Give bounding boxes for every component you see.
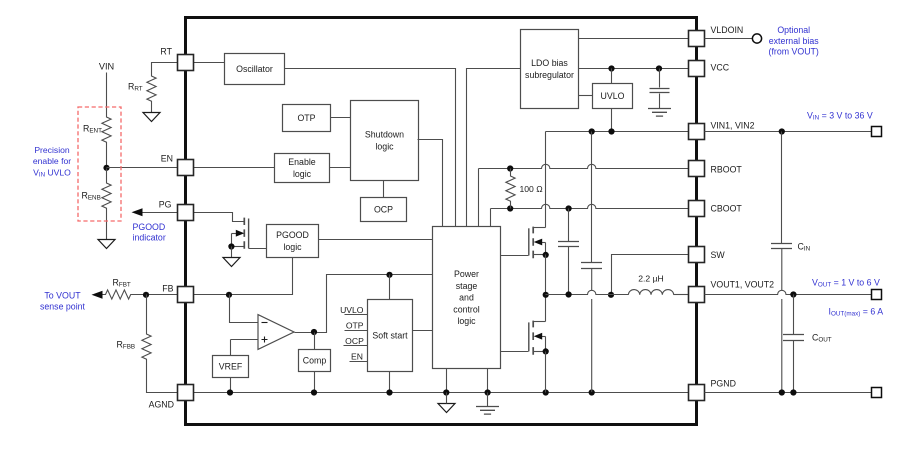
block Oscillator	[225, 54, 285, 85]
node PGOOD FET source junction	[228, 243, 234, 249]
wire RENB to ground	[106, 223, 108, 240]
wire FB to op-amp inverting input	[230, 295, 259, 323]
ground (EN divider)	[98, 240, 115, 249]
svg-text:EN: EN	[351, 351, 363, 361]
block OCP	[361, 198, 407, 222]
node op-amp output junction	[311, 329, 317, 335]
wire PG pin to PGOOD FET drain	[194, 213, 245, 222]
ground (RRT)	[143, 113, 160, 122]
IC boundary (main block outline)	[186, 18, 697, 425]
block Comp	[299, 350, 331, 372]
svg-text:Shutdown: Shutdown	[365, 129, 404, 139]
wire RFBB to AGND pin	[147, 363, 178, 393]
wire RBOOT riser from power stage	[478, 169, 480, 227]
wire power stage to ground (triangle)	[446, 369, 448, 393]
svg-text:AGND: AGND	[149, 400, 174, 410]
wire HS gate from power stage	[501, 255, 529, 257]
svg-text:SW: SW	[711, 250, 726, 260]
wire VLDOIN to external bias	[705, 38, 753, 40]
wire soft start output to power stage	[413, 330, 433, 332]
inductor 2.2 uH	[628, 290, 673, 295]
pin PGND	[689, 385, 705, 401]
block Enable logic	[275, 154, 330, 183]
svg-text:OCP: OCP	[374, 205, 393, 215]
svg-text:UVLO: UVLO	[340, 305, 364, 315]
svg-text:PGOOD: PGOOD	[276, 230, 309, 240]
wire PGOOD logic to power stage	[319, 239, 433, 241]
wire CBOOT cap top lead	[568, 209, 570, 242]
wire junction to soft start	[389, 275, 391, 300]
wire VIN bypass cap top lead	[591, 132, 593, 263]
pin EN	[178, 160, 194, 176]
ground (power, earth)	[487, 393, 489, 407]
svg-text:VCC: VCC	[711, 62, 730, 72]
capacitor VIN bypass	[581, 263, 602, 269]
svg-text:PGOOD: PGOOD	[133, 222, 166, 232]
wire SW pin line	[612, 255, 689, 295]
node optional external bias terminal	[752, 34, 761, 43]
wire shutdown logic to OCP	[383, 181, 385, 198]
wire CBOOT line	[491, 204, 689, 208]
transistor high-side FET	[532, 227, 534, 259]
svg-text:PGND: PGND	[711, 379, 736, 389]
svg-text:control: control	[453, 304, 479, 314]
svg-text:RT: RT	[160, 47, 172, 57]
transistor low-side FET	[532, 321, 534, 355]
capacitor COUT	[783, 335, 804, 341]
block OTP	[283, 105, 331, 132]
svg-text:Comp: Comp	[303, 356, 327, 366]
wire VIN1 VIN2 line	[546, 131, 689, 133]
capacitor VCC bypass	[650, 89, 670, 93]
svg-text:VOUT1, VOUT2: VOUT1, VOUT2	[711, 279, 775, 289]
pin VCC	[689, 61, 705, 77]
svg-text:sense point: sense point	[40, 301, 86, 311]
arrowhead to VOUT sense point	[92, 291, 103, 299]
wire VIN bypass cap to ground rail	[591, 268, 593, 392]
wire LDO to VLDOIN pin	[579, 38, 689, 40]
wire SW node to inductor	[546, 290, 629, 294]
wire oscillator output to power stage	[285, 69, 456, 227]
wire OTP input	[345, 330, 368, 332]
wire VIN down to HS FET drain	[545, 132, 547, 228]
pin FB	[178, 287, 194, 303]
annotation precision-enable box (red dashed)	[78, 107, 121, 221]
svg-text:Precision: Precision	[34, 145, 70, 155]
pin RT	[178, 55, 194, 71]
wire LDO to UVLO	[579, 95, 593, 97]
svg-text:(from VOUT): (from VOUT)	[769, 47, 819, 57]
wire VREF to ground rail	[230, 378, 232, 393]
pin AGND	[178, 385, 194, 401]
svg-text:logic: logic	[375, 142, 394, 152]
svg-text:Soft start: Soft start	[372, 331, 408, 341]
wire CBOOT cap to SW node	[568, 247, 570, 295]
wire VCC cap to ground	[659, 94, 661, 109]
wire EN input	[350, 361, 368, 363]
node EN divider junction	[103, 165, 109, 171]
wire op-amp output to power stage	[295, 275, 433, 333]
svg-text:logic: logic	[457, 316, 476, 326]
svg-text:stage: stage	[456, 281, 478, 291]
pin VOUT1, VOUT2	[689, 287, 705, 303]
wire UVLO bottom to VIN line	[611, 109, 613, 132]
svg-text:VIN1, VIN2: VIN1, VIN2	[711, 121, 755, 131]
svg-text:CBOOT: CBOOT	[711, 204, 743, 214]
wire FB junction down to RFBB	[146, 295, 148, 331]
wire LS drain to SW node	[545, 295, 547, 322]
wire ground rail AGND to PGND	[194, 392, 689, 394]
ground (PGOOD FET)	[223, 258, 240, 267]
node FB external junction	[143, 292, 149, 298]
resistor RFBT	[100, 290, 137, 299]
block UVLO	[593, 84, 633, 109]
wire OTP to shutdown logic	[331, 117, 351, 119]
pin VIN1, VIN2	[689, 124, 705, 140]
node LS FET source junction	[543, 348, 549, 354]
resistor RRT	[147, 74, 156, 104]
wire PG indicator arrow	[141, 212, 178, 214]
svg-text:VLDOIN: VLDOIN	[711, 25, 744, 35]
node SW drop junction	[608, 292, 614, 298]
svg-text:Oscillator: Oscillator	[236, 64, 273, 74]
svg-text:RBOOT: RBOOT	[711, 164, 743, 174]
svg-text:OCP: OCP	[345, 336, 364, 346]
wire PGND external line	[705, 392, 872, 394]
resistor 100 ohm	[506, 169, 515, 209]
wire LS gate from power stage	[501, 351, 529, 353]
block Power stage and control logic	[433, 227, 501, 369]
wire RBOOT line	[479, 164, 689, 168]
resistor RENT	[102, 113, 111, 147]
svg-text:EN: EN	[161, 153, 173, 163]
wire FB pin to RFBT	[137, 294, 178, 296]
svg-text:To VOUT: To VOUT	[44, 290, 81, 300]
block Shutdown logic	[351, 101, 419, 181]
resistor RENB	[102, 169, 111, 223]
wire EN pin to enable logic	[194, 167, 275, 169]
terminal VIN input	[872, 127, 882, 137]
svg-text:indicator: indicator	[133, 232, 166, 242]
wire enable logic to shutdown logic	[330, 167, 351, 169]
block VREF	[213, 356, 249, 378]
wire RT pin to RRT	[152, 63, 178, 74]
wire CIN top lead	[781, 132, 783, 244]
arrowhead PGOOD indicator	[132, 208, 143, 216]
svg-text:OTP: OTP	[346, 320, 364, 330]
svg-text:logic: logic	[293, 169, 312, 179]
terminal PGND	[872, 388, 882, 398]
svg-text:FB: FB	[162, 283, 173, 293]
capacitor CIN	[771, 244, 792, 249]
wire RENT to node EN-div	[106, 147, 108, 169]
wire VCC line to UVLO top	[611, 69, 613, 84]
op-amp error amplifier	[258, 315, 294, 350]
svg-text:Enable: Enable	[288, 157, 315, 167]
svg-text:Optional: Optional	[777, 25, 810, 35]
svg-text:LDO bias: LDO bias	[531, 58, 568, 68]
capacitor CBOOT	[558, 242, 579, 247]
wire RRT to ground	[151, 104, 153, 113]
block LDO bias subregulator	[521, 30, 579, 109]
wire HS source to SW node	[545, 255, 547, 295]
wire CBOOT riser from power stage	[490, 209, 492, 227]
wire VIN to RENT	[106, 73, 108, 113]
wire LS source to ground rail	[545, 352, 547, 393]
wire VIN external line	[705, 131, 872, 133]
wire COUT top lead	[793, 295, 795, 335]
svg-text:OTP: OTP	[297, 113, 315, 123]
wire PGOOD logic sense from FB	[194, 258, 293, 295]
pin RBOOT	[689, 161, 705, 177]
wire inductor to VOUT pin	[674, 294, 689, 296]
wire PGOOD FET source to ground	[231, 247, 233, 258]
wire OCP input	[344, 345, 368, 347]
wire COUT bottom lead	[793, 341, 795, 393]
node HS FET source junction	[543, 252, 549, 258]
wire VREF to op-amp non-inverting input	[231, 339, 259, 341]
wire soft start to ground rail	[389, 372, 391, 393]
svg-text:and: and	[459, 293, 474, 303]
wire UVLO input	[345, 314, 368, 316]
wire comp to op-amp output	[314, 333, 316, 350]
node SW node junction	[543, 292, 549, 298]
svg-text:100 Ω: 100 Ω	[520, 184, 544, 194]
wire VCC bypass cap lead	[659, 69, 661, 88]
svg-text:enable for: enable for	[33, 156, 71, 166]
transistor PGOOD FET Q1	[243, 218, 245, 249]
ground (analog, triangle)	[438, 404, 455, 413]
wire comp to ground rail	[314, 372, 316, 393]
svg-text:VREF: VREF	[219, 362, 243, 372]
wire shutdown logic to power stage	[418, 140, 443, 227]
svg-text:VIN: VIN	[99, 61, 114, 71]
wire LDO to VCC pin	[579, 68, 689, 70]
block PGOOD logic	[267, 225, 319, 258]
pin PG	[178, 205, 194, 221]
node FB internal junction	[226, 292, 232, 298]
svg-text:UVLO: UVLO	[601, 91, 625, 101]
svg-text:external bias: external bias	[769, 36, 819, 46]
terminal VOUT output	[872, 290, 882, 300]
node soft-start top junction	[386, 272, 392, 278]
svg-text:2.2 µH: 2.2 µH	[638, 273, 664, 283]
pin SW	[689, 247, 705, 263]
wire PGOOD FET gate to PGOOD logic	[249, 248, 267, 250]
wire CIN bottom lead to PGND	[781, 249, 783, 392]
wire LDO feed from power stage	[467, 69, 521, 227]
svg-text:Power: Power	[454, 269, 479, 279]
block Soft start	[368, 300, 413, 372]
pin VLDOIN	[689, 31, 705, 47]
wire EN divider to EN pin	[107, 167, 178, 169]
wire power stage to ground (earth)	[487, 369, 489, 393]
pin CBOOT	[689, 201, 705, 217]
svg-text:PG: PG	[159, 199, 172, 209]
wire RT pin to oscillator	[194, 62, 225, 64]
svg-text:VIN UVLO: VIN UVLO	[33, 168, 71, 179]
resistor RFBB	[142, 331, 151, 363]
ground (VCC cap, earth)	[648, 109, 671, 117]
svg-text:logic: logic	[283, 242, 302, 252]
svg-text:subregulator: subregulator	[525, 70, 574, 80]
wire VOUT external line	[705, 290, 872, 294]
